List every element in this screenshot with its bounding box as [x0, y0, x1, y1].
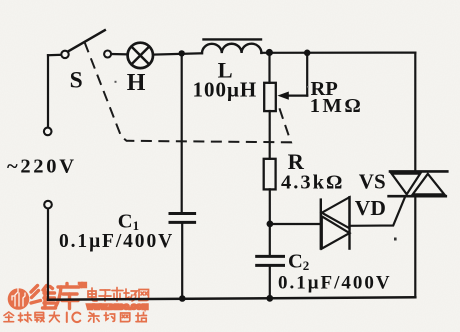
svg-text:WWW.DZSC.COM: WWW.DZSC.COM — [87, 304, 148, 311]
svg-text:C: C — [118, 211, 133, 233]
svg-text:100μH: 100μH — [193, 77, 258, 101]
svg-text:2: 2 — [303, 258, 310, 273]
svg-text:S: S — [70, 68, 83, 94]
svg-text:TM: TM — [79, 283, 86, 289]
svg-text:0.1μF/400V: 0.1μF/400V — [59, 231, 174, 252]
svg-text:4.3kΩ: 4.3kΩ — [281, 172, 344, 194]
svg-text:R: R — [288, 149, 305, 174]
svg-text:VS: VS — [359, 169, 386, 193]
svg-text:1MΩ: 1MΩ — [310, 95, 364, 117]
svg-text:C: C — [288, 251, 303, 273]
svg-text:H: H — [127, 70, 146, 96]
svg-text:~220V: ~220V — [7, 156, 77, 178]
svg-text:0.1μF/400V: 0.1μF/400V — [278, 273, 392, 294]
svg-text:VD: VD — [355, 196, 386, 220]
